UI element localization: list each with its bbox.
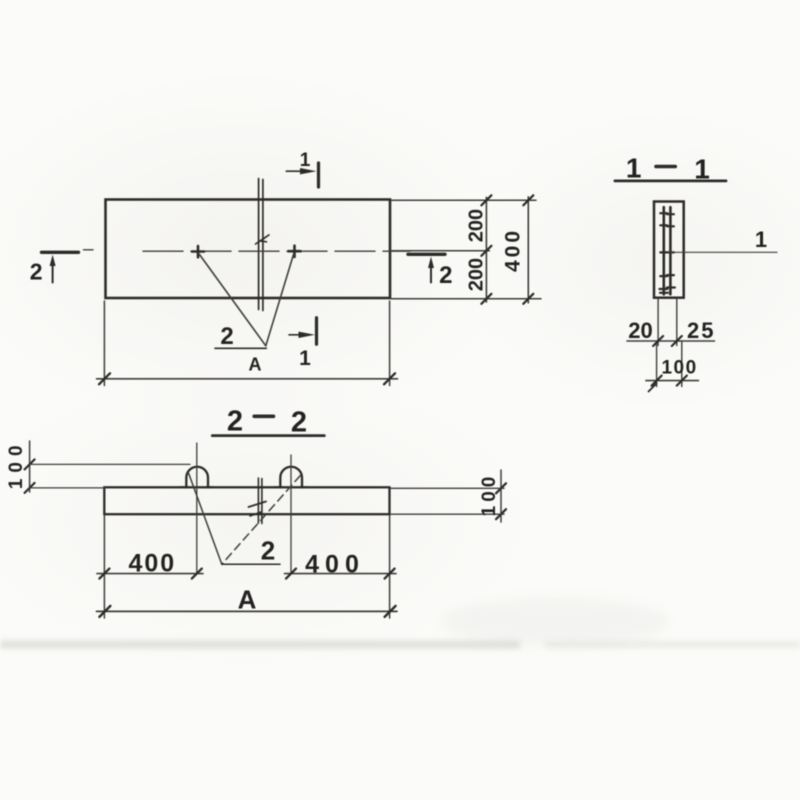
tick [496,509,506,519]
dashed centerline [143,250,410,252]
dimension line A (plan) [97,378,398,380]
left 100 dimension line [29,441,31,492]
svg-text:A: A [238,585,257,615]
svg-text:2: 2 [261,536,275,566]
leader line from right lifting point [266,254,294,346]
break double line left [257,478,259,523]
tick [677,376,687,386]
svg-text:100: 100 [661,358,697,379]
centerline dash left of panel [84,249,94,251]
title dash [656,165,675,169]
extension below: face right [681,341,683,387]
svg-text:1: 1 [299,347,311,370]
section mark 1 top: bar [317,163,320,187]
svg-text:400: 400 [305,551,365,579]
break flag on joint [256,235,270,245]
extension line top right [392,199,537,201]
extension to slab top [30,487,105,489]
panel outline rectangle [106,200,391,299]
tick [192,569,202,579]
panel bottom edge emphasis [106,297,390,299]
scan smudge band [0,641,520,649]
svg-text:1: 1 [755,227,767,252]
svg-text:400: 400 [128,550,176,578]
leader left (solid) [189,474,222,565]
section mark 1 bottom: arrow [289,334,303,336]
joint double line right [262,180,264,311]
dimension line 400 right [285,573,397,575]
slab outline [104,487,389,514]
svg-text:20: 20 [628,318,652,343]
dimension line 20/25 [627,340,715,342]
svg-text:2: 2 [291,407,307,439]
svg-text:25: 25 [687,318,715,343]
rebar left [662,207,665,294]
rebar right [669,207,672,294]
lifting point mark left (cross) [192,250,204,253]
extension below slab left [103,516,105,619]
tick [99,373,110,384]
tick [384,373,395,384]
extension slab bottom right [391,513,504,515]
tick [99,569,109,579]
dimension line 100 [646,380,699,382]
section mark 2 left: bar [42,251,79,254]
svg-text:200: 200 [465,209,487,242]
svg-text:2: 2 [220,323,233,350]
title underline [212,434,324,437]
extension slab top right [391,487,504,489]
svg-text:2: 2 [439,262,452,289]
dimension line A (section) [97,610,398,612]
extension below: bar left [657,299,659,346]
tick [672,336,682,346]
extension below slab right [389,516,391,619]
tick [481,294,491,304]
tick [481,246,491,256]
loop centerline left [196,443,198,574]
tick [652,376,662,386]
extension line bottom left of plan [103,301,105,386]
loop left feet [181,486,188,488]
section 1-1 outline [654,202,684,298]
title underline [615,179,726,182]
stray tick [649,384,657,392]
svg-text:400: 400 [502,228,525,272]
dimension line 400 left [97,573,203,575]
tick [653,336,663,346]
leader underline [215,347,266,349]
extension line bottom right of plan [389,301,391,386]
tick [286,569,296,579]
svg-text:1: 1 [300,150,311,171]
break double line right [261,479,263,524]
loop centerline right [290,455,292,574]
extension to loop top [30,463,190,465]
tick [523,195,533,205]
axis line 1 (section) [669,251,778,253]
tick [25,483,35,493]
dimension line 200/200 [485,197,487,302]
tick [481,195,491,205]
tick [523,294,533,304]
extension below: bar right [676,299,678,346]
svg-text:100: 100 [6,439,27,489]
joint double line left [258,179,260,310]
svg-text:1: 1 [626,152,642,183]
break tick lower [250,512,261,516]
section mark 2 right: up arrow [430,264,432,283]
extension line bottom right [392,298,542,300]
extension below: face left [656,341,658,387]
loop right feet [275,486,282,488]
break tick upper [249,502,267,508]
lifting loop right [280,467,302,488]
leader right (dashed) [222,476,300,565]
svg-text:A: A [249,355,262,375]
leader underline [222,563,280,565]
title dash [254,414,273,418]
dimension line 400 [527,197,529,303]
tick [99,606,110,617]
svg-text:2: 2 [227,406,243,438]
svg-text:100: 100 [479,473,500,517]
lifting loop left [186,467,208,488]
right 100 dimension line [500,470,502,522]
tick [25,459,35,469]
tick [385,569,395,579]
rebar cross ticks [660,213,675,293]
section mark 2 left: up arrow [52,262,54,283]
lifting point mark right (cross) [289,250,301,253]
section mark 2 right: bar [408,253,445,256]
svg-text:2: 2 [30,259,43,285]
tick [385,606,396,617]
section mark 1 bottom: bar [315,318,318,345]
extension line middle right [392,250,490,252]
leader line from left lifting point [200,255,266,346]
svg-text:200: 200 [466,258,488,291]
tick [496,483,506,493]
section mark 1 top: arrow [286,170,304,172]
